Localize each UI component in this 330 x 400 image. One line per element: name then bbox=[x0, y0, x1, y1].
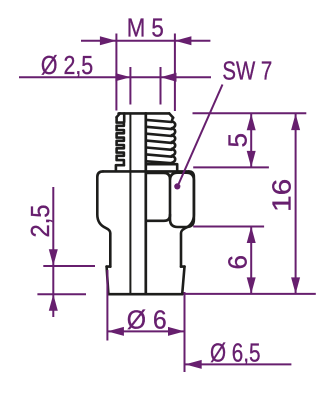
leader line SW 7 bbox=[179, 85, 223, 185]
bore left wall line bbox=[129, 113, 131, 293]
svg-text:M 5: M 5 bbox=[127, 13, 164, 43]
dimension line diameter 6 bbox=[107, 330, 184, 332]
dimension line 2,5 left vertical bbox=[52, 187, 54, 317]
svg-text:Ø 6: Ø 6 bbox=[127, 304, 167, 334]
thread root line top-left bbox=[123, 113, 126, 121]
thread crest bar 3 bbox=[146, 134, 171, 136]
foot bottom edge bbox=[108, 293, 182, 296]
thread profile teeth (left, sectioned) bbox=[117, 117, 124, 165]
dimension line diameter 2,5 bbox=[19, 76, 211, 78]
svg-text:SW 7: SW 7 bbox=[222, 56, 272, 86]
foot left slanted edge bbox=[107, 267, 109, 295]
arrowhead M5 left bbox=[100, 36, 117, 45]
arrowhead 16 bottom bbox=[291, 277, 300, 294]
part top edge bbox=[119, 112, 170, 115]
thread top-right chamfer bbox=[169, 113, 173, 117]
svg-text:Ø 2,5: Ø 2,5 bbox=[41, 50, 93, 80]
dimension line diameter 6,5 bbox=[185, 363, 291, 365]
hex right silhouette with bottom blend to neck bbox=[181, 171, 194, 266]
arrowhead 5 top bbox=[247, 114, 256, 131]
foot top edge left step bbox=[107, 265, 111, 268]
svg-text:6: 6 bbox=[223, 255, 253, 270]
arrowhead 6 top bbox=[247, 227, 256, 244]
extension line foot top left bbox=[43, 265, 95, 267]
extension line part top right bbox=[193, 112, 307, 114]
arrowhead diameter6 right bbox=[168, 327, 185, 336]
foot top edge right step bbox=[181, 265, 185, 268]
arrowhead 6 bottom bbox=[247, 277, 256, 294]
extension line foot bottom right bbox=[184, 293, 316, 295]
extension line foot bottom left bbox=[37, 293, 86, 295]
extension line M5 left bbox=[115, 34, 117, 111]
arrowhead 2,5 bottom bbox=[49, 294, 58, 311]
dimension line 6 vertical bbox=[250, 227, 252, 294]
svg-text:16: 16 bbox=[267, 179, 297, 212]
hex center face bottom edge bbox=[146, 215, 170, 221]
section centerline boundary bbox=[144, 113, 147, 293]
arrowhead 2,5 top bbox=[49, 249, 58, 266]
arrowhead diameter6,5 bbox=[185, 360, 202, 369]
thread runout band right bbox=[146, 164, 177, 170]
arrowhead 16 top bbox=[291, 114, 300, 131]
svg-text:Ø 6,5: Ø 6,5 bbox=[210, 337, 261, 367]
hex left silhouette with bottom blend to neck bbox=[97, 171, 110, 266]
thread crest bar 5 bbox=[146, 148, 171, 150]
svg-text:2,5: 2,5 bbox=[25, 205, 55, 238]
dimension line 5 vertical bbox=[250, 114, 252, 168]
thread crest bar 7 bbox=[146, 161, 171, 163]
arrowhead bore left bbox=[115, 73, 130, 81]
extension line bore right bbox=[160, 67, 162, 105]
extension line M5 right bbox=[174, 34, 176, 112]
thread runout step left bbox=[116, 165, 124, 170]
svg-text:5: 5 bbox=[223, 133, 253, 148]
extension line thread end right bbox=[193, 166, 269, 168]
thread crest bar 6 bbox=[146, 154, 171, 156]
leader dot SW7 bbox=[174, 183, 180, 189]
arrowhead 5 bottom bbox=[247, 151, 256, 168]
dimension line 16 vertical bbox=[295, 114, 297, 294]
hex top edge bbox=[103, 170, 189, 173]
thread crest bar 1 bbox=[146, 120, 171, 122]
extension line bore left bbox=[129, 67, 131, 105]
hex right face rounded rectangle bbox=[170, 173, 194, 227]
arrowhead M5 right bbox=[175, 36, 192, 45]
extension line hex bottom right bbox=[193, 226, 264, 228]
extension line foot bottom-left corner bbox=[106, 270, 108, 341]
arrowhead bore right bbox=[161, 73, 177, 82]
dimension line M5 bbox=[81, 40, 210, 42]
thread crest bar 2 bbox=[146, 127, 171, 129]
arrowhead diameter6 left bbox=[107, 327, 124, 336]
foot right slanted edge bbox=[182, 267, 184, 295]
thread crest outer edge right bbox=[172, 118, 175, 165]
thread top-left chamfer bbox=[117, 113, 120, 117]
thread crest bar 4 bbox=[146, 141, 171, 143]
hex center face top edge bbox=[146, 173, 170, 179]
extension line foot corner right bbox=[184, 292, 186, 372]
